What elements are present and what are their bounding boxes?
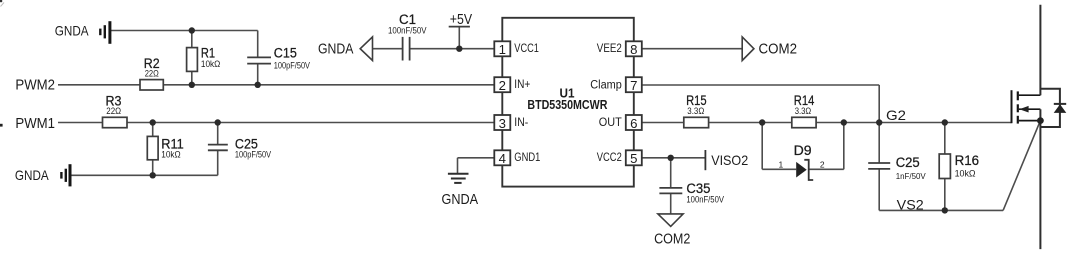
op IC U1 body	[502, 18, 634, 187]
svg-text:C35: C35	[686, 181, 710, 196]
wire C25 branch	[217, 123, 219, 145]
transistor Q MOSFET	[1012, 90, 1041, 123]
svg-text:VS2: VS2	[897, 196, 924, 212]
source stub	[1019, 120, 1041, 122]
svg-text:3.3Ω: 3.3Ω	[795, 106, 812, 116]
capacitor C25 left	[208, 145, 228, 151]
resistor R16	[939, 154, 950, 179]
svg-text:GND1: GND1	[514, 152, 540, 164]
diode body cathode bar	[1054, 103, 1066, 105]
channel bar middle	[1017, 104, 1019, 112]
svg-text:8: 8	[630, 42, 637, 57]
channel bar bottom	[1017, 116, 1019, 124]
junction dot clamp/C25b	[876, 119, 882, 125]
junction dot R16 bottom	[942, 207, 948, 213]
junction dot C15/PWM2	[255, 82, 261, 88]
wire D9 right branch	[809, 168, 844, 170]
svg-text:VISO2: VISO2	[711, 152, 748, 168]
wire VCC2 to VISO2	[641, 157, 705, 159]
wire C15 branch bottom	[257, 64, 259, 85]
svg-text:COM2: COM2	[654, 231, 690, 247]
junction dot R11/GNDA rail	[150, 172, 156, 178]
pin 7 box	[626, 77, 642, 93]
svg-text:1nF/50V: 1nF/50V	[896, 171, 926, 181]
wire body diode loop	[1040, 89, 1060, 127]
svg-text:6: 6	[630, 116, 637, 131]
svg-text:100nF/50V: 100nF/50V	[388, 25, 427, 35]
svg-text:1: 1	[779, 159, 784, 169]
diode body triangle	[1054, 104, 1067, 113]
wire source vertical	[1039, 109, 1041, 249]
wire GND1 pin4	[458, 157, 495, 159]
pin 3 box	[494, 115, 510, 131]
edge tick	[0, 124, 3, 127]
svg-text:D9: D9	[794, 143, 812, 158]
svg-text:22Ω: 22Ω	[145, 68, 159, 78]
svg-text:C15: C15	[274, 45, 297, 60]
pin 5 box	[626, 150, 642, 166]
svg-text:IN-: IN-	[514, 117, 528, 129]
corner tick	[0, 0, 2, 2]
wire VEE2 to COM2	[641, 48, 742, 50]
port VISO2	[704, 150, 706, 170]
svg-text:22Ω: 22Ω	[106, 106, 121, 116]
capacitor C35	[659, 188, 682, 194]
wire +5V drop	[458, 27, 460, 49]
bulk stub	[1019, 108, 1041, 110]
wire top GNDA rail	[110, 30, 258, 32]
svg-text:GNDA: GNDA	[15, 167, 49, 183]
junction dot R11/PWM1	[150, 119, 156, 125]
svg-text:G2: G2	[886, 107, 906, 123]
capacitor C1	[403, 37, 410, 61]
wire VS2	[879, 209, 1003, 211]
wire C1 to pin1	[410, 48, 495, 50]
svg-text:PWM2: PWM2	[15, 77, 55, 93]
svg-text:IN+: IN+	[514, 79, 530, 91]
resistor R11	[147, 136, 158, 159]
wire R16 branch	[944, 123, 946, 155]
svg-text:100pF/50V: 100pF/50V	[274, 60, 310, 70]
resistor R14	[792, 117, 816, 127]
wire drain vertical	[1039, 5, 1041, 96]
wire R1 branch top	[191, 31, 193, 48]
svg-text:VCC2: VCC2	[597, 152, 622, 164]
resistor R15	[684, 117, 709, 127]
svg-text:+5V: +5V	[450, 12, 473, 28]
wire VS2 diagonal to source	[1003, 121, 1040, 211]
pin 2 box	[494, 77, 510, 93]
wire R15 to R14	[709, 122, 792, 124]
svg-text:GNDA: GNDA	[55, 23, 89, 39]
junction dot VCC2	[668, 155, 674, 161]
wire D9 left branch	[761, 123, 763, 170]
svg-text:COM2: COM2	[759, 41, 798, 57]
capacitor C25 right	[868, 163, 890, 169]
wire R1 branch bottom	[191, 71, 193, 84]
gate bar	[1011, 90, 1013, 123]
svg-text:BTD5350MCWR: BTD5350MCWR	[527, 97, 607, 112]
svg-text:OUT: OUT	[599, 117, 622, 129]
svg-text:4: 4	[499, 151, 506, 166]
wire PWM2	[58, 84, 140, 86]
wire OUT to R15	[641, 122, 684, 124]
wire R11 branch	[152, 123, 154, 137]
ground GNDA top-left	[100, 21, 110, 44]
junction dot R16 top	[942, 119, 948, 125]
wire C35 branch	[670, 158, 672, 188]
port COM2 arrow (VEE2)	[742, 37, 754, 61]
svg-text:3: 3	[499, 116, 506, 131]
svg-text:10kΩ: 10kΩ	[201, 59, 221, 69]
ground GNDA under IC	[448, 174, 469, 183]
svg-text:10kΩ: 10kΩ	[161, 150, 181, 160]
junction dot D9 right	[841, 119, 847, 125]
svg-text:GNDA: GNDA	[318, 42, 354, 58]
pin 4 box	[494, 150, 510, 166]
resistor R2	[140, 80, 163, 90]
junction dot +5V	[456, 46, 462, 52]
resistor R3	[103, 117, 128, 127]
wire Clamp	[641, 84, 879, 86]
diode D9 zener	[796, 160, 813, 180]
svg-text:1: 1	[499, 42, 506, 57]
svg-text:C25: C25	[896, 155, 920, 170]
wire C25b branch	[878, 123, 880, 164]
wire C15 branch top	[257, 31, 259, 58]
svg-text:PWM1: PWM1	[15, 116, 55, 132]
svg-text:2: 2	[820, 160, 825, 170]
wire PWM1	[58, 122, 103, 124]
wire R14 to gate	[816, 122, 1011, 124]
svg-text:100nF/50V: 100nF/50V	[686, 195, 724, 205]
junction dot R1/PWM2	[189, 82, 195, 88]
junction dot D9 left	[759, 119, 765, 125]
pin 6 box	[626, 115, 642, 131]
resistor R1	[187, 48, 198, 72]
bulk arrow head	[1019, 106, 1028, 113]
ground COM2 triangle	[658, 214, 683, 227]
svg-text:VEE2: VEE2	[597, 43, 622, 55]
svg-text:100pF/50V: 100pF/50V	[235, 150, 271, 160]
svg-text:VCC1: VCC1	[514, 43, 539, 55]
svg-text:Clamp: Clamp	[590, 79, 622, 91]
channel bar top	[1017, 91, 1019, 100]
svg-text:GNDA: GNDA	[442, 192, 479, 208]
junction dot C25/PWM1	[215, 119, 221, 125]
wire GNDA port to C1	[373, 48, 403, 50]
svg-text:7: 7	[630, 78, 637, 93]
pin 1 box	[494, 41, 510, 57]
junction dot source	[1037, 117, 1044, 124]
svg-text:3.3Ω: 3.3Ω	[687, 106, 704, 116]
junction dot R1 top rail	[189, 27, 195, 33]
drain stub	[1019, 94, 1041, 96]
svg-text:R16: R16	[955, 153, 980, 168]
capacitor C15	[247, 57, 271, 63]
svg-text:10kΩ: 10kΩ	[955, 168, 976, 178]
wire bottom GNDA rail	[70, 174, 218, 176]
svg-text:5: 5	[630, 151, 637, 166]
svg-text:2: 2	[499, 78, 506, 93]
pin 8 box	[626, 41, 642, 57]
ground GNDA bottom-left	[61, 164, 70, 186]
